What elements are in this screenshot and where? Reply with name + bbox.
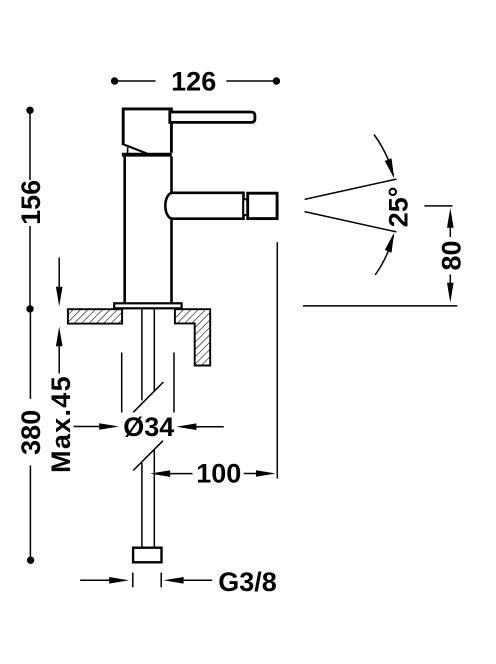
svg-text:156: 156 bbox=[16, 180, 46, 225]
dimension 80 top tick bbox=[424, 205, 452, 207]
dimension 80 lower shaft bbox=[449, 275, 451, 285]
faucet body left edge bbox=[123, 157, 126, 304]
spray angle upper line bbox=[305, 179, 397, 199]
dimension 380 line bbox=[29, 313, 31, 399]
faucet body right edge upper bbox=[170, 157, 173, 193]
dimension O34 left line bbox=[74, 426, 101, 428]
supply pipe upper left bbox=[141, 309, 143, 401]
dimension Max.45 upper shaft bbox=[58, 258, 60, 289]
dimension G3/8 right line bbox=[183, 579, 213, 581]
supply pipe lower right bbox=[153, 450, 155, 547]
svg-text:126: 126 bbox=[171, 66, 216, 96]
countertop left block bbox=[68, 309, 122, 323]
faucet body right edge lower bbox=[170, 219, 173, 304]
countertop right block bbox=[175, 309, 210, 365]
dimension 80 down arrow bbox=[447, 283, 454, 303]
dimension G3/8 left line bbox=[80, 579, 110, 581]
dimension 100 right line bbox=[244, 473, 257, 475]
svg-text:Ø34: Ø34 bbox=[123, 412, 174, 442]
dimension Max.45 lower shaft bbox=[58, 345, 60, 373]
svg-text:100: 100 bbox=[196, 459, 241, 489]
dimension G3/8 left tick bbox=[132, 573, 134, 588]
spray angle lower line bbox=[305, 212, 397, 232]
faucet handle head bbox=[123, 109, 171, 153]
dimension 80 up arrow bbox=[447, 208, 454, 228]
dimension G3/8 left arrow bbox=[109, 577, 129, 584]
dimension 100 right arrow bbox=[256, 470, 276, 477]
dimension 380 bottom dot bbox=[27, 557, 34, 564]
svg-text:380: 380 bbox=[16, 410, 46, 455]
svg-text:Max.45: Max.45 bbox=[46, 375, 76, 473]
spray angle lower arc arrow bbox=[385, 233, 394, 253]
dimension 80 upper shaft bbox=[449, 227, 451, 237]
countertop reference line right bbox=[303, 305, 457, 307]
dimension 100 left arrow bbox=[150, 470, 170, 477]
pipe break slash lower bbox=[133, 441, 163, 471]
dimension Max.45 up arrow bbox=[56, 327, 63, 347]
dimension O34 right arrow bbox=[176, 423, 196, 430]
aerator bbox=[248, 193, 277, 218]
dimension Max.45 down arrow bbox=[56, 287, 63, 307]
aerator extension line bbox=[276, 242, 278, 478]
dimension 156 bottom dot bbox=[26, 305, 33, 312]
dimension G3/8 right arrow bbox=[163, 577, 183, 584]
pipe break slash upper bbox=[133, 382, 163, 412]
handle skirt tick bbox=[127, 147, 129, 154]
dimension G3/8 right tick bbox=[160, 573, 162, 588]
dimension 156 line bbox=[29, 110, 31, 180]
connection nut bbox=[133, 548, 161, 563]
dimension 100 left line bbox=[169, 473, 192, 475]
dimension 156 top dot bbox=[26, 107, 33, 114]
supply pipe upper right bbox=[153, 309, 155, 391]
handle lever bbox=[170, 112, 255, 122]
svg-text:80: 80 bbox=[436, 240, 466, 270]
svg-text:25°: 25° bbox=[383, 186, 413, 227]
base plate bbox=[114, 303, 181, 308]
spout bbox=[165, 193, 243, 219]
handle skirt diagonal bbox=[122, 144, 147, 154]
spout-aerator connector bbox=[243, 199, 247, 215]
supply pipe lower left bbox=[141, 463, 143, 547]
spray angle upper arc arrow bbox=[385, 158, 394, 178]
spray angle upper arc bbox=[374, 135, 394, 176]
cartridge collar thick line bbox=[122, 153, 172, 157]
dimension 126 left dot bbox=[111, 77, 118, 84]
dimension O34 left arrow bbox=[99, 423, 119, 430]
shank hole line left bbox=[121, 353, 123, 413]
dimension 126 line bbox=[115, 80, 156, 82]
svg-text:G3/8: G3/8 bbox=[218, 567, 277, 597]
spray angle lower arc bbox=[375, 236, 393, 276]
shank hole line right bbox=[173, 353, 175, 413]
dimension O34 right line bbox=[196, 426, 224, 428]
dimension 126 right dot bbox=[273, 77, 280, 84]
